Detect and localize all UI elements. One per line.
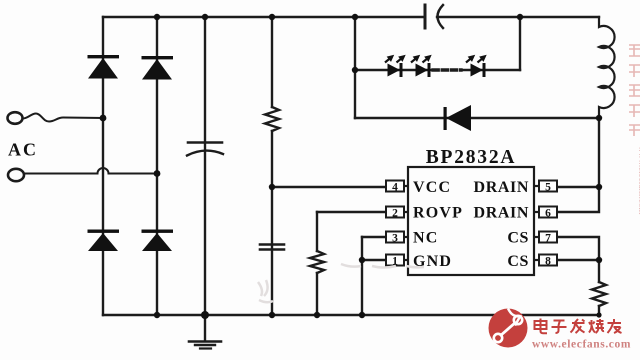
svg-text:7: 7 [545, 233, 551, 245]
pin 7 box [534, 232, 557, 245]
node NC GND junction [359, 257, 365, 263]
wire input cap branch [204, 17, 206, 315]
svg-text:www.elecfans.com: www.elecfans.com [532, 339, 631, 351]
svg-text:DRAIN: DRAIN [474, 205, 529, 222]
svg-text:AC: AC [8, 140, 38, 160]
wire bottom bus [103, 314, 599, 316]
LED3 arrows [464, 52, 489, 65]
node top bus at x520 [517, 14, 523, 20]
svg-text:3: 3 [392, 233, 398, 245]
wire pin1 GND [362, 259, 386, 261]
node bottom bus at x362 [359, 312, 365, 318]
wire pin2 ROVP [317, 211, 386, 213]
svg-text:VCC: VCC [413, 179, 451, 196]
svg-text:ROVP: ROVP [413, 205, 463, 222]
watermark text dianzifashaoyou [535, 319, 622, 334]
wire ROVP branch [316, 212, 318, 315]
LED1 [388, 63, 403, 77]
wire LED string [355, 69, 520, 71]
svg-text:CS: CS [507, 253, 529, 270]
wire AC live squiggle [23, 114, 103, 122]
capacitor C3 [260, 245, 284, 250]
wire CS rail [558, 237, 599, 315]
wire AC neutral with hop [25, 168, 157, 174]
wire drain rail [558, 118, 599, 212]
wire bridge left leg [102, 17, 104, 315]
pin 3 box [386, 232, 408, 245]
pin 5 box [534, 181, 557, 194]
node VCC branch [269, 184, 275, 190]
svg-text:BP2832A: BP2832A [426, 147, 517, 168]
svg-text:NC: NC [413, 230, 439, 247]
svg-text:2: 2 [392, 208, 398, 220]
node LED branch [352, 67, 358, 73]
watermark right edge vertical [629, 45, 640, 136]
LED1 arrows [383, 52, 408, 65]
diode D5 freewheel [444, 105, 472, 131]
svg-text:6: 6 [545, 208, 551, 220]
wire LED branch vertical [354, 17, 356, 118]
LED3 [471, 63, 486, 77]
LED2 arrows [409, 52, 434, 65]
wire freewheel diode row [355, 117, 599, 119]
watermark logo elecfans [489, 309, 528, 348]
pin 4 box [386, 181, 408, 194]
wire NC/GND branch [361, 237, 363, 315]
wire LED string right riser [519, 17, 521, 70]
ghost watermark smudge left [258, 264, 424, 302]
capacitor C2 [187, 143, 223, 156]
pin 8 box [534, 255, 557, 268]
wire pin4 VCC [272, 186, 386, 188]
node drain rail [596, 184, 602, 190]
resistor R1 [265, 107, 279, 131]
diode D1 [88, 55, 120, 79]
node top bus at x205 [202, 14, 208, 20]
terminal AC live [8, 112, 23, 124]
diode D2 [142, 56, 174, 80]
svg-text:4: 4 [392, 182, 398, 194]
LED string dashed section [433, 68, 461, 71]
node bottom bus at x599 [596, 312, 601, 317]
wire top bus [103, 16, 599, 18]
inductor L1 [599, 17, 615, 118]
node top bus at x272 [269, 14, 275, 20]
wire pin3 NC [362, 236, 386, 238]
svg-text:5: 5 [545, 182, 551, 194]
node top bus at x157 [154, 14, 160, 20]
pin 1 box [386, 255, 408, 268]
terminal AC neutral [8, 169, 24, 181]
node AC neutral junction [154, 170, 161, 177]
node bottom bus at x272 [269, 312, 275, 318]
diode D4 [142, 230, 174, 252]
pin 6 box [534, 207, 557, 220]
svg-text:8: 8 [545, 256, 551, 268]
diode D3 [88, 230, 120, 252]
node bottom bus at x157 [154, 312, 160, 318]
node CS rail [596, 257, 602, 263]
IC U1 BP2832A body [408, 167, 534, 275]
node top bus at x355 [352, 14, 358, 20]
node inductor bottom [596, 115, 602, 121]
svg-text:DRAIN: DRAIN [474, 179, 529, 196]
resistor R2 [310, 251, 324, 273]
node AC live junction [100, 115, 107, 122]
resistor R3 [592, 282, 606, 306]
ground [189, 315, 221, 349]
pin 2 box [386, 207, 408, 220]
svg-text:CS: CS [507, 230, 529, 247]
capacitor C1 [425, 5, 443, 28]
node bottom bus at x317 [314, 312, 320, 318]
wire VCC branch [271, 17, 273, 315]
wire bridge right leg [156, 17, 158, 315]
node bottom bus at x205 [201, 311, 209, 319]
LED2 [416, 63, 431, 77]
